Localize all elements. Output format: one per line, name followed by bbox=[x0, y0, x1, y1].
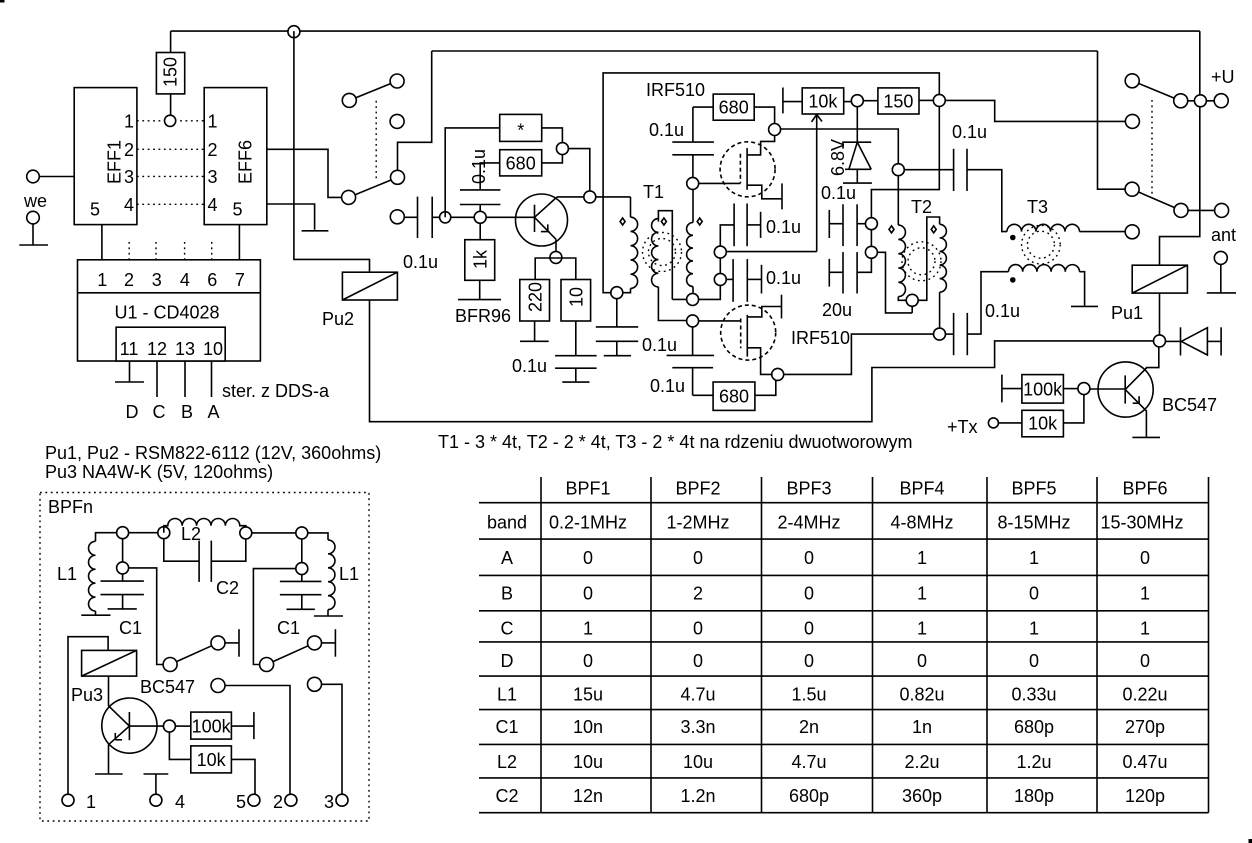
svg-text:BC547: BC547 bbox=[1162, 395, 1217, 415]
svg-text:BPF2: BPF2 bbox=[675, 479, 720, 499]
capacitor 0.1u T1 primary decoupling bbox=[596, 299, 638, 356]
node emitter bbox=[550, 251, 562, 263]
capacitor 0.1u bottom gate chain bbox=[667, 327, 715, 395]
svg-text:10k: 10k bbox=[197, 750, 227, 770]
svg-text:1: 1 bbox=[917, 548, 927, 568]
ground: terminal 4 bbox=[144, 774, 169, 794]
trimmer wiper arrow bbox=[812, 115, 823, 252]
node +U terminal bbox=[1214, 94, 1228, 108]
svg-text:5: 5 bbox=[236, 792, 246, 812]
svg-text:1: 1 bbox=[917, 584, 927, 604]
svg-text:0: 0 bbox=[1140, 651, 1150, 671]
svg-text:100k: 100k bbox=[192, 716, 232, 736]
wire: U1 pin12 stub bbox=[156, 361, 158, 397]
svg-text:0: 0 bbox=[1029, 584, 1039, 604]
node BFR96 base bbox=[474, 211, 486, 223]
svg-text:680: 680 bbox=[719, 98, 749, 118]
svg-text:150: 150 bbox=[883, 92, 913, 112]
node: we input terminal bbox=[27, 170, 74, 183]
svg-text:Pu1, Pu2 - RSM822-6112 (12V, 3: Pu1, Pu2 - RSM822-6112 (12V, 360ohms) bbox=[45, 443, 381, 463]
svg-text:12: 12 bbox=[147, 339, 167, 359]
svg-text:T1 - 3 * 4t, T2 - 2 * 4t, T3 -: T1 - 3 * 4t, T2 - 2 * 4t, T3 - 2 * 4t na… bbox=[438, 432, 913, 452]
wire: dashed stubs to U1 bbox=[129, 242, 212, 260]
polarity mark T1 secondary A bbox=[661, 218, 666, 225]
resistor 10 emitter bbox=[561, 280, 591, 322]
node C1 left tap bbox=[117, 539, 164, 665]
svg-text:1n: 1n bbox=[912, 717, 932, 737]
relay coil Pu2 bbox=[342, 272, 397, 300]
wire: supply rail 3 bbox=[603, 73, 939, 293]
node coil drive bbox=[1154, 335, 1166, 347]
transformer T2 winding B bbox=[918, 217, 946, 328]
node BC547 base bbox=[1078, 383, 1125, 395]
capacitor 0.1u coupling bottom bbox=[946, 272, 1009, 356]
svg-text:10n: 10n bbox=[573, 717, 603, 737]
node collector bbox=[584, 191, 596, 203]
wire: dotted bus pin2 bbox=[137, 148, 204, 150]
transformer T1 primary winding bbox=[623, 197, 638, 293]
svg-text:+U: +U bbox=[1211, 67, 1235, 87]
wire: emitter to 220 bbox=[535, 258, 556, 280]
wire: terminal 1 to Pu3 bbox=[68, 637, 108, 795]
node T2 top bbox=[892, 164, 953, 176]
svg-text:10k: 10k bbox=[1028, 414, 1058, 434]
svg-text:0.1u: 0.1u bbox=[985, 301, 1020, 321]
svg-text:C1: C1 bbox=[119, 618, 142, 638]
inductor L2 bbox=[164, 519, 246, 533]
capacitor C1 left bbox=[101, 574, 144, 609]
relay coil Pu3 bbox=[82, 650, 137, 676]
svg-text:10: 10 bbox=[203, 339, 223, 359]
svg-text:5: 5 bbox=[233, 200, 243, 220]
switch Pu1 contact a (+U) bbox=[1125, 74, 1214, 129]
svg-text:0.22u: 0.22u bbox=[1122, 684, 1167, 704]
ground: 220 bottom bbox=[520, 321, 549, 341]
ground: 100k right (rotated) bbox=[253, 712, 255, 739]
node terminal 3 bbox=[336, 794, 348, 806]
svg-text:L1: L1 bbox=[339, 564, 359, 584]
svg-text:B: B bbox=[181, 402, 193, 422]
transistor Q4 BC547 bbox=[1098, 347, 1159, 437]
node 20u B bbox=[865, 246, 912, 313]
svg-text:+Tx: +Tx bbox=[947, 417, 978, 437]
inductor L1 right bbox=[328, 540, 335, 616]
svg-text:7: 7 bbox=[235, 270, 245, 290]
svg-text:0.1u: 0.1u bbox=[952, 122, 987, 142]
ground: 1k bottom bbox=[458, 280, 501, 299]
wire: switch b throw up to rail 2 bbox=[398, 51, 432, 170]
svg-text:4: 4 bbox=[208, 195, 218, 215]
svg-text:0: 0 bbox=[917, 651, 927, 671]
svg-text:1.2n: 1.2n bbox=[680, 786, 715, 806]
switch Pu2 contact a (upper) bbox=[342, 74, 404, 128]
resistor 220 emitter bbox=[520, 280, 550, 322]
node bottom drain bbox=[772, 368, 784, 380]
svg-text:13: 13 bbox=[175, 339, 195, 359]
table row C bbox=[501, 619, 1151, 639]
svg-text:0.1u: 0.1u bbox=[403, 252, 438, 272]
svg-text:0: 0 bbox=[583, 584, 593, 604]
table row D bbox=[501, 651, 1151, 671]
wire: top supply rail 2 bbox=[432, 50, 1098, 52]
wire: top supply rail 1 bbox=[171, 30, 1200, 32]
node T1 primary bottom bbox=[611, 287, 623, 299]
svg-text:BPF4: BPF4 bbox=[899, 479, 944, 499]
svg-text:0.1u: 0.1u bbox=[766, 217, 801, 237]
capacitor 20u B bbox=[829, 252, 871, 293]
resistor 10k base bbox=[1022, 395, 1084, 437]
ground: C1 left bbox=[108, 608, 137, 610]
wire: dotted bus pin1 EFF1-EFF6 bbox=[137, 120, 204, 122]
svg-text:C2: C2 bbox=[495, 786, 518, 806]
switch Pu1 contact b (ant) bbox=[1125, 182, 1215, 217]
svg-text:10u: 10u bbox=[683, 752, 713, 772]
svg-text:3: 3 bbox=[152, 270, 162, 290]
zener diode 6.8V bbox=[843, 107, 871, 183]
wire: EFF6 pin5 to U1 bbox=[238, 225, 240, 260]
svg-text:1: 1 bbox=[1140, 584, 1150, 604]
table row L2 bbox=[497, 752, 1168, 772]
wire: EFF1 pin5 to U1 bbox=[101, 225, 103, 260]
svg-text:L2: L2 bbox=[497, 752, 517, 772]
wire: rail1 junction down to Pu2 bbox=[294, 31, 370, 272]
wire: Pu1 coil down bbox=[1159, 293, 1161, 335]
table row C2 bbox=[495, 786, 1165, 806]
svg-text:20u: 20u bbox=[822, 300, 852, 320]
resistor 680 bottom feedback bbox=[693, 380, 776, 410]
transformer T2 core bbox=[902, 242, 941, 281]
wire: top drain to T2 bbox=[781, 129, 899, 164]
svg-text:0: 0 bbox=[1029, 651, 1039, 671]
node Q5 base bbox=[163, 720, 190, 759]
node T1 center tap bbox=[672, 285, 720, 305]
relay link dashed Pu2 bbox=[375, 101, 377, 182]
transistor Q5 BC547 BPFn bbox=[102, 676, 164, 773]
node feedback tap bbox=[440, 212, 451, 223]
ground: switch left throw (rotated) bbox=[238, 629, 240, 657]
svg-text:4: 4 bbox=[175, 792, 185, 812]
node top drain bbox=[769, 124, 781, 136]
wire: 150 node down to 20u rail bbox=[871, 106, 939, 246]
wire: Pu2 coil to BC547 collector line bbox=[370, 300, 1154, 422]
resistor 100k BPFn bbox=[191, 712, 254, 739]
ground: ant ground terminal bbox=[1207, 251, 1236, 293]
svg-text:270p: 270p bbox=[1125, 717, 1165, 737]
table row L1 bbox=[497, 684, 1168, 704]
svg-text:220: 220 bbox=[526, 282, 546, 312]
ground: diode end (rotated) bbox=[1220, 327, 1222, 355]
ground: bias B right bbox=[761, 265, 763, 294]
node terminal 1 bbox=[62, 794, 74, 806]
table row B bbox=[501, 584, 1150, 604]
svg-text:2: 2 bbox=[208, 140, 218, 160]
table row C1 bbox=[495, 717, 1165, 737]
ground: BC547 emitter bbox=[1132, 436, 1160, 438]
svg-text:1: 1 bbox=[208, 111, 218, 131]
svg-text:150: 150 bbox=[161, 57, 181, 87]
svg-text:2: 2 bbox=[273, 792, 283, 812]
svg-text:1-2MHz: 1-2MHz bbox=[666, 513, 729, 533]
svg-text:680: 680 bbox=[719, 387, 749, 407]
capacitor 0.1u top gate bbox=[672, 107, 714, 177]
transformer T3 bottom winding bbox=[1009, 265, 1080, 272]
relay link dashed Pu1 bbox=[1151, 100, 1153, 198]
wire: 680 left to bypass cap bbox=[480, 163, 500, 190]
svg-text:0.82u: 0.82u bbox=[899, 684, 944, 704]
relay filter block EFF1 bbox=[74, 88, 137, 225]
corner mark bottom-right bbox=[1249, 839, 1252, 843]
svg-text:0: 0 bbox=[583, 548, 593, 568]
transistor Q1 BFR96 bbox=[516, 194, 568, 251]
ground: L1 right bbox=[314, 615, 343, 617]
capacitor 0.1u bias A bbox=[720, 204, 760, 247]
node on pin1 bus bbox=[165, 115, 176, 126]
svg-text:EFF6: EFF6 bbox=[236, 140, 256, 184]
node +Tx terminal bbox=[988, 418, 1022, 428]
table band row bbox=[487, 513, 1184, 533]
svg-text:4: 4 bbox=[124, 195, 134, 215]
svg-text:BPF6: BPF6 bbox=[1122, 479, 1167, 499]
wire: 150 node to switch throw E bbox=[945, 100, 1125, 121]
svg-text:4.7u: 4.7u bbox=[680, 684, 715, 704]
node 10k-150 junction bbox=[844, 95, 878, 107]
phase dot T3 bottom bbox=[1010, 277, 1016, 283]
ground: 10k trimmer left bbox=[783, 88, 802, 114]
ground: bottom MOSFET source bbox=[781, 295, 783, 319]
svg-text:680p: 680p bbox=[789, 786, 829, 806]
svg-text:BPFn: BPFn bbox=[48, 497, 93, 517]
svg-text:0: 0 bbox=[804, 651, 814, 671]
ground: 20u A left bbox=[828, 210, 830, 238]
svg-text:D: D bbox=[126, 402, 139, 422]
svg-text:2.2u: 2.2u bbox=[904, 752, 939, 772]
svg-text:C1: C1 bbox=[495, 717, 518, 737]
node T2 bottom bbox=[934, 328, 946, 340]
capacitor 0.1u base bypass bbox=[460, 190, 501, 217]
ground: Q5 emitter bbox=[95, 773, 123, 775]
ground: we ground terminal bbox=[19, 211, 48, 245]
svg-text:1: 1 bbox=[97, 270, 107, 290]
switch Pu2 contact b (lower) bbox=[342, 170, 405, 204]
svg-text:T1: T1 bbox=[643, 182, 664, 202]
svg-text:T3: T3 bbox=[1027, 197, 1048, 217]
svg-text:C: C bbox=[153, 402, 166, 422]
svg-text:3: 3 bbox=[124, 167, 134, 187]
svg-text:100k: 100k bbox=[1023, 379, 1063, 399]
svg-text:L1: L1 bbox=[497, 684, 517, 704]
ground: switch right throw (rotated) bbox=[334, 629, 336, 657]
svg-text:10u: 10u bbox=[573, 752, 603, 772]
svg-text:BPF1: BPF1 bbox=[565, 479, 610, 499]
svg-text:8-15MHz: 8-15MHz bbox=[997, 513, 1070, 533]
svg-text:0.1u: 0.1u bbox=[469, 149, 489, 184]
svg-text:T2: T2 bbox=[911, 197, 932, 217]
svg-text:ant: ant bbox=[1211, 225, 1236, 245]
node right top bbox=[296, 527, 328, 540]
svg-text:11: 11 bbox=[120, 339, 139, 359]
transformer T2 winding A bbox=[898, 176, 906, 301]
svg-text:0: 0 bbox=[1140, 548, 1150, 568]
svg-text:we: we bbox=[23, 191, 47, 211]
transformer T3 top winding bbox=[1007, 224, 1080, 231]
node ant terminal bbox=[1215, 203, 1229, 217]
svg-text:1: 1 bbox=[1140, 619, 1150, 639]
svg-text:*: * bbox=[517, 121, 524, 141]
capacitor 0.1u bias B bbox=[733, 259, 761, 302]
svg-text:6: 6 bbox=[207, 270, 217, 290]
svg-text:EFF1: EFF1 bbox=[105, 140, 125, 184]
svg-text:10: 10 bbox=[567, 287, 587, 307]
node C1 right tap bbox=[253, 539, 307, 665]
wire: * and 680 right join bbox=[542, 128, 563, 163]
junction rail1 at +U row bbox=[1194, 95, 1206, 107]
node: switch throw terminal to coupling cap bbox=[390, 210, 417, 224]
node L2 input bbox=[117, 527, 158, 539]
resistor 150 supply bbox=[878, 88, 919, 114]
ground: T3 bottom right bbox=[1071, 272, 1098, 307]
svg-text:Pu3 NA4W-K (5V, 120ohms): Pu3 NA4W-K (5V, 120ohms) bbox=[45, 462, 273, 482]
table header row bbox=[565, 479, 1167, 499]
ground: EFF6 pin4 out bbox=[267, 204, 329, 231]
svg-text:2: 2 bbox=[693, 584, 703, 604]
svg-text:0.1u: 0.1u bbox=[650, 376, 685, 396]
transformer T1 secondary B winding bbox=[687, 189, 693, 293]
svg-text:1.2u: 1.2u bbox=[1016, 752, 1051, 772]
relay filter block EFF6 bbox=[204, 88, 267, 225]
transformer T3 core bbox=[1022, 225, 1061, 264]
resistor 10k BPFn bbox=[191, 746, 255, 794]
resistor 680 top feedback bbox=[693, 94, 775, 123]
svg-text:BPF3: BPF3 bbox=[786, 479, 831, 499]
svg-text:U1 - CD4028: U1 - CD4028 bbox=[115, 303, 220, 323]
wire: dotted bus pin3 bbox=[137, 175, 204, 177]
capacitor 0.1u coupling top bbox=[954, 149, 1007, 232]
svg-text:15u: 15u bbox=[573, 684, 603, 704]
svg-text:BFR96: BFR96 bbox=[455, 306, 511, 326]
svg-text:C: C bbox=[501, 619, 514, 639]
polarity mark T2 B bbox=[931, 226, 936, 233]
svg-text:L2: L2 bbox=[181, 524, 201, 544]
svg-text:680: 680 bbox=[506, 153, 536, 173]
svg-text:4.7u: 4.7u bbox=[791, 752, 826, 772]
resistor 680 feedback bbox=[500, 150, 542, 176]
svg-text:BPF5: BPF5 bbox=[1011, 479, 1056, 499]
corner mark top-left bbox=[0, 0, 5, 3]
svg-text:1.5u: 1.5u bbox=[791, 684, 826, 704]
ground: bias A right bbox=[760, 212, 762, 238]
wire: feedback up to * box bbox=[445, 128, 500, 217]
node T2 center tap bbox=[906, 294, 918, 313]
svg-text:0.1u: 0.1u bbox=[649, 120, 684, 140]
ground: U1 pin11 bbox=[115, 361, 144, 382]
wire: bottom drain to T2 bbox=[784, 334, 934, 374]
relay coil Pu1 bbox=[1132, 265, 1187, 293]
svg-text:C2: C2 bbox=[216, 578, 239, 598]
svg-text:0.1u: 0.1u bbox=[821, 183, 856, 203]
switch BPF left bbox=[163, 636, 239, 672]
svg-text:Pu1: Pu1 bbox=[1111, 303, 1143, 323]
svg-text:120p: 120p bbox=[1125, 786, 1165, 806]
BPFn dotted box bbox=[40, 493, 369, 822]
svg-text:0.1u: 0.1u bbox=[766, 268, 801, 288]
wire: cap to base node bbox=[432, 216, 534, 218]
wire: dotted bus pin4 bbox=[137, 203, 204, 205]
svg-text:1: 1 bbox=[1029, 548, 1039, 568]
resistor 1k base bias bbox=[465, 223, 495, 280]
junction on rail 1 bbox=[288, 26, 300, 38]
ground: top MOSFET source bbox=[781, 183, 783, 209]
node terminal 5 bbox=[248, 794, 260, 806]
svg-text:360p: 360p bbox=[902, 786, 942, 806]
node T1 lower gate bbox=[687, 315, 741, 327]
svg-text:L1: L1 bbox=[57, 564, 77, 584]
resistor 10k trimmer bbox=[802, 88, 844, 114]
svg-text:0: 0 bbox=[804, 548, 814, 568]
node 150 right bbox=[919, 94, 945, 106]
wire: rail1 down right side bbox=[1160, 31, 1200, 265]
diode flyback bbox=[1166, 327, 1222, 355]
inductor L1 left bbox=[89, 533, 117, 616]
svg-text:0: 0 bbox=[583, 651, 593, 671]
svg-text:2-4MHz: 2-4MHz bbox=[777, 513, 840, 533]
node terminal 4 bbox=[150, 794, 162, 806]
ground: C1 right bbox=[287, 608, 315, 610]
node 20u A bbox=[865, 218, 877, 230]
svg-text:0.1u: 0.1u bbox=[642, 335, 677, 355]
svg-text:1: 1 bbox=[1029, 619, 1039, 639]
ground: L1 left bbox=[81, 614, 110, 616]
polarity mark T1 secondary B bbox=[697, 218, 702, 225]
svg-text:1: 1 bbox=[583, 619, 593, 639]
svg-text:180p: 180p bbox=[1014, 786, 1054, 806]
wire: feedback node to collector bbox=[568, 149, 589, 191]
svg-text:A: A bbox=[207, 402, 219, 422]
node feedback join bbox=[556, 143, 568, 155]
svg-text:4-8MHz: 4-8MHz bbox=[890, 513, 953, 533]
IC U1 CD4028 bbox=[78, 260, 261, 361]
resistor * (feedback) bbox=[500, 114, 542, 141]
svg-text:D: D bbox=[501, 651, 514, 671]
table row A bbox=[501, 548, 1150, 568]
svg-text:1: 1 bbox=[86, 792, 96, 812]
node bias line B bbox=[714, 246, 816, 273]
transistor Q3 IRF510 bottom bbox=[721, 305, 782, 374]
node L2 left bbox=[158, 527, 170, 539]
svg-text:3: 3 bbox=[208, 167, 218, 187]
node G1 top gate bbox=[687, 177, 741, 189]
svg-text:3.3n: 3.3n bbox=[680, 717, 715, 737]
wire: collector to T1 bbox=[557, 196, 631, 198]
wire: emitter to 10 bbox=[556, 258, 576, 280]
svg-text:1: 1 bbox=[917, 619, 927, 639]
capacitor 20u A bbox=[829, 204, 865, 246]
node bias line C bbox=[714, 273, 733, 285]
svg-text:2: 2 bbox=[124, 270, 134, 290]
svg-text:4: 4 bbox=[180, 270, 190, 290]
svg-text:0: 0 bbox=[804, 584, 814, 604]
svg-text:1k: 1k bbox=[471, 249, 491, 269]
svg-text:5: 5 bbox=[90, 200, 100, 220]
svg-text:B: B bbox=[501, 584, 513, 604]
svg-text:2: 2 bbox=[124, 140, 134, 160]
svg-text:0.1u: 0.1u bbox=[512, 356, 547, 376]
switch BPF left lower throw to pin2 bbox=[211, 679, 290, 794]
transformer T1 secondary A winding bbox=[652, 211, 687, 321]
svg-text:2n: 2n bbox=[799, 717, 819, 737]
capacitor C1 right bbox=[280, 575, 322, 610]
ground: 20u B left bbox=[828, 259, 830, 287]
svg-text:band: band bbox=[487, 513, 527, 533]
